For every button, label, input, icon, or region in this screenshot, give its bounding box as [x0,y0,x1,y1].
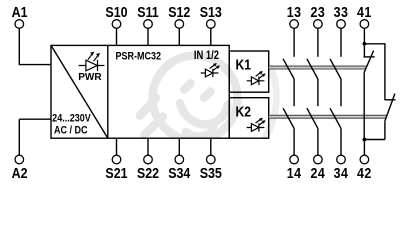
svg-text:24...230V: 24...230V [52,113,91,125]
terminal circle S35 [207,155,216,164]
terminal circle S34 [175,155,184,164]
contact K1 NO 23-24 [307,59,318,106]
terminal S12 [168,3,190,46]
relay coil K1 box [229,51,269,92]
wire S35 [210,139,212,155]
wire 41 [363,28,365,57]
terminal circle 23 [314,20,323,29]
svg-text:S13: S13 [200,3,222,20]
svg-text:S22: S22 [137,164,159,181]
svg-text:13: 13 [287,3,302,20]
contact K1 NC 41-42 [364,51,375,140]
relay body U1 outline [51,45,229,138]
contact K2 NO 33-34 [330,108,341,155]
svg-text:24: 24 [311,164,326,181]
node junction at 41 [363,42,367,46]
terminal circle 33 [337,20,346,29]
terminal 34 [334,155,349,181]
terminal S22 [137,139,159,182]
contact K1 NO 13-14 [283,59,294,106]
terminal 41 [357,3,372,57]
terminal 14 [287,155,302,181]
terminal circle A1 [15,20,24,29]
terminal A1 [12,3,51,65]
terminal circle 14 [290,155,299,164]
svg-text:S11: S11 [137,3,159,20]
terminal S10 [105,3,127,46]
terminal S34 [168,139,190,182]
contact K2 NO 23-24 [307,108,318,155]
svg-text:PWR: PWR [78,72,102,83]
svg-text:K2: K2 [236,103,251,119]
LED D1 power indicator [79,52,105,72]
svg-text:S10: S10 [105,3,127,20]
terminal S11 [137,3,159,46]
terminal 13 [287,3,302,57]
LED K1 indicator [247,71,266,85]
power supply section divider [107,45,109,138]
terminal circle S13 [207,20,216,29]
wire S11 [147,28,149,45]
wire 42 [363,140,365,156]
mechanical link K1 [269,66,367,70]
terminal 23 [311,3,326,57]
terminal circle S11 [144,20,153,29]
terminal circle S10 [112,20,121,29]
svg-text:A1: A1 [12,3,28,20]
wire A2 to supply input [19,119,51,155]
wire S12 [178,28,180,45]
wire 42 bypass branch [364,139,385,141]
terminal S35 [200,139,222,182]
terminal circle S22 [144,155,153,164]
wire S10 [116,28,118,45]
contact K2 NC 41-42 [385,94,396,140]
svg-text:33: 33 [334,3,349,20]
svg-text:23: 23 [311,3,326,20]
terminal circle S21 [112,155,121,164]
svg-text:41: 41 [357,3,372,20]
svg-text:A2: A2 [12,164,28,181]
svg-text:IN 1/2: IN 1/2 [194,49,219,62]
terminal circle 42 [360,155,369,164]
wire S34 [178,139,180,155]
terminal S21 [105,139,127,182]
terminal circle 34 [337,155,346,164]
terminal circle A2 [15,155,24,164]
terminal circle S12 [175,20,184,29]
terminal circle 41 [360,20,369,29]
wire S22 [147,139,149,155]
terminal circle 24 [314,155,323,164]
terminal 33 [334,3,349,57]
mechanical link K2 [269,115,387,119]
svg-text:S35: S35 [200,164,222,181]
terminal 42 [357,140,372,182]
svg-text:PSR-MC32: PSR-MC32 [116,51,162,63]
terminal A2 [12,119,51,181]
power supply diagonal [51,45,108,138]
svg-text:34: 34 [334,164,349,181]
LED D2 input indicator [201,63,220,77]
wire 23 [317,28,319,57]
relay coil K2 box [229,98,269,139]
contact K1 NO 33-34 [330,59,341,106]
contact K2 NO 13-14 [283,108,294,155]
terminal circle 13 [290,20,299,29]
terminal 24 [311,155,326,181]
wire A1 to supply input [19,28,51,64]
wire 13 [293,28,295,57]
wire 41 bypass branch [364,44,385,100]
svg-text:14: 14 [287,164,302,181]
wire 33 [340,28,342,57]
svg-text:S12: S12 [168,3,190,20]
wire S13 [210,28,212,45]
svg-text:S34: S34 [168,164,190,181]
terminal S13 [200,3,222,46]
svg-text:S21: S21 [105,164,127,181]
wire S21 [116,139,118,155]
LED K2 indicator [247,118,266,132]
svg-text:42: 42 [357,164,372,181]
node junction at 42 [363,138,367,142]
svg-text:K1: K1 [236,56,252,72]
svg-text:AC / DC: AC / DC [54,125,88,137]
watermark logo [140,56,276,141]
